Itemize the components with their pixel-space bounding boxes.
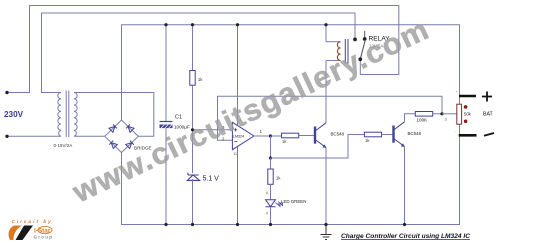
wire bridge + output riser and top DC rail: [122, 25, 460, 120]
zener D5 5.1V: [187, 173, 199, 181]
wire secondary top to bridge right vertex: [74, 93, 154, 137]
svg-text:BAT: BAT: [483, 111, 494, 117]
transformer TR1 secondary winding: [74, 93, 77, 137]
relay core lines: [344, 39, 346, 64]
logo ellipse accent: [38, 226, 52, 233]
svg-text:Group: Group: [34, 235, 54, 240]
wire node B to Q2 base resistor: [271, 135, 365, 159]
wire zener to ground rail: [192, 179, 194, 225]
wire op-amp V+ pin 4 stub: [237, 25, 239, 126]
pot terminal dot lower: [464, 120, 468, 124]
wire battery vertical through pot: [459, 96, 461, 135]
wire resistor to LED: [270, 184, 272, 199]
svg-text:BC548: BC548: [331, 132, 345, 137]
node ground rail LED: [269, 223, 272, 226]
node mains terminal top: [5, 91, 8, 94]
svg-text:230V: 230V: [4, 110, 24, 119]
potentiometer RV1 50k body: [457, 104, 462, 124]
wire R1 branch upper: [192, 25, 194, 71]
wire outer mains loop: terminal to relay common: [7, 6, 399, 93]
diode D2 top-right of bridge: [126, 124, 134, 132]
svg-text:C1: C1: [175, 115, 182, 121]
wire bridge - output and bottom ground rail: [122, 135, 460, 224]
node 3 junction: [440, 112, 443, 115]
wire op-amp pin 2 to sense line: [218, 96, 443, 140]
wire op-amp V- pin 11 stub to ground rail: [237, 147, 239, 225]
bridge rectifier BR1 diamond: [105, 120, 139, 152]
svg-text:LED GREEN: LED GREEN: [281, 199, 306, 204]
resistor R1 1k vertical: [190, 71, 195, 86]
battery negative plate: [459, 134, 477, 137]
resistor R3 1k Q1 base: [282, 133, 299, 138]
resistor R5 100K: [415, 112, 432, 117]
node ground rail zener: [191, 223, 194, 226]
node B: [269, 156, 272, 159]
diode D1 top-left of bridge: [109, 124, 117, 132]
wire C1 branch upper: [165, 25, 167, 121]
wire primary bottom lead: [7, 135, 61, 137]
wire Q2 collector to 100K: [405, 114, 416, 122]
wire node 3 to pot wiper: [442, 113, 457, 115]
node ground rail C1: [164, 223, 167, 226]
relay switch common contact: [353, 38, 357, 42]
LED D6 green: [266, 200, 283, 207]
svg-text:100K: 100K: [417, 118, 429, 123]
wire output to R3: [271, 135, 282, 137]
resistor R4 1k Q2 base: [364, 132, 381, 137]
relay RL1 coil: [326, 41, 341, 43]
resistor R2 1k vertical LED branch: [268, 169, 273, 184]
diode D4 bottom-right of bridge: [126, 141, 134, 149]
node rail relay/Q1: [324, 23, 327, 26]
svg-text:5.1 V: 5.1 V: [203, 176, 220, 183]
svg-text:Circuit by: Circuit by: [12, 219, 53, 224]
relay switch lever: [360, 40, 365, 59]
wire Q2 emitter to ground rail: [404, 147, 406, 225]
wire LED branch upper: [270, 158, 272, 169]
node output A: [269, 134, 272, 137]
battery big + sign: [482, 92, 492, 102]
svg-text:50k: 50k: [464, 112, 472, 117]
wire 100K to node 3: [433, 113, 442, 115]
wire output down to node B: [270, 136, 272, 158]
transistor Q1 BC548: [315, 123, 326, 148]
svg-text:0-15V/2A: 0-15V/2A: [54, 143, 73, 148]
battery BAT positive plate: [459, 95, 476, 98]
relay RL1 coil feed from rail: [325, 25, 327, 42]
node ground rail Q2 emitter: [403, 223, 406, 226]
wire R3 to Q1 base: [299, 135, 314, 137]
wire inner loop: primary top to relay NC contact: [42, 13, 356, 93]
ground symbol: [321, 225, 332, 240]
transistor Q2 BC548: [394, 122, 405, 147]
wire LED to ground rail: [270, 207, 272, 225]
wire Q1 collector to relay coil: [325, 61, 327, 123]
wire reference node to op-amp pin 3: [193, 129, 233, 131]
svg-text:−: −: [234, 140, 238, 146]
wire R4 to Q2 base: [382, 134, 393, 136]
svg-text:BC548: BC548: [408, 131, 422, 136]
node mains terminal bottom: [5, 135, 8, 138]
svg-text:Charge Controller Circuit usin: Charge Controller Circuit using LM324 IC: [341, 233, 470, 240]
wire C1 branch lower: [165, 128, 167, 224]
node rail C1: [164, 23, 167, 26]
transformer TR1 core: [65, 91, 67, 138]
node ground rail pin11: [236, 223, 239, 226]
capacitor C1 1000uF: [160, 121, 173, 123]
logo orange swoosh: [9, 226, 22, 241]
node rail pin4: [236, 23, 239, 26]
node ground rail Q1 emitter: [324, 223, 327, 226]
pot terminal dot upper: [464, 105, 468, 109]
wire secondary bottom to bridge left vertex: [74, 135, 105, 137]
wire R1 to zener junction: [192, 85, 194, 173]
battery minus mark: [484, 133, 494, 136]
transformer TR1 primary winding: [58, 93, 61, 137]
node reference junction: [191, 128, 194, 131]
op-amp U1 LM324 triangle: [232, 122, 254, 149]
relay switch NO terminal stub: [364, 31, 366, 38]
logo black shape: [16, 226, 34, 241]
node rail R1: [191, 23, 194, 26]
wire Q1 emitter to ground rail: [325, 148, 327, 225]
diode D3 bottom-left of bridge: [109, 141, 117, 149]
wire op-amp output: [254, 135, 271, 137]
svg-text:-: -: [455, 129, 456, 133]
svg-text:+: +: [456, 90, 458, 94]
